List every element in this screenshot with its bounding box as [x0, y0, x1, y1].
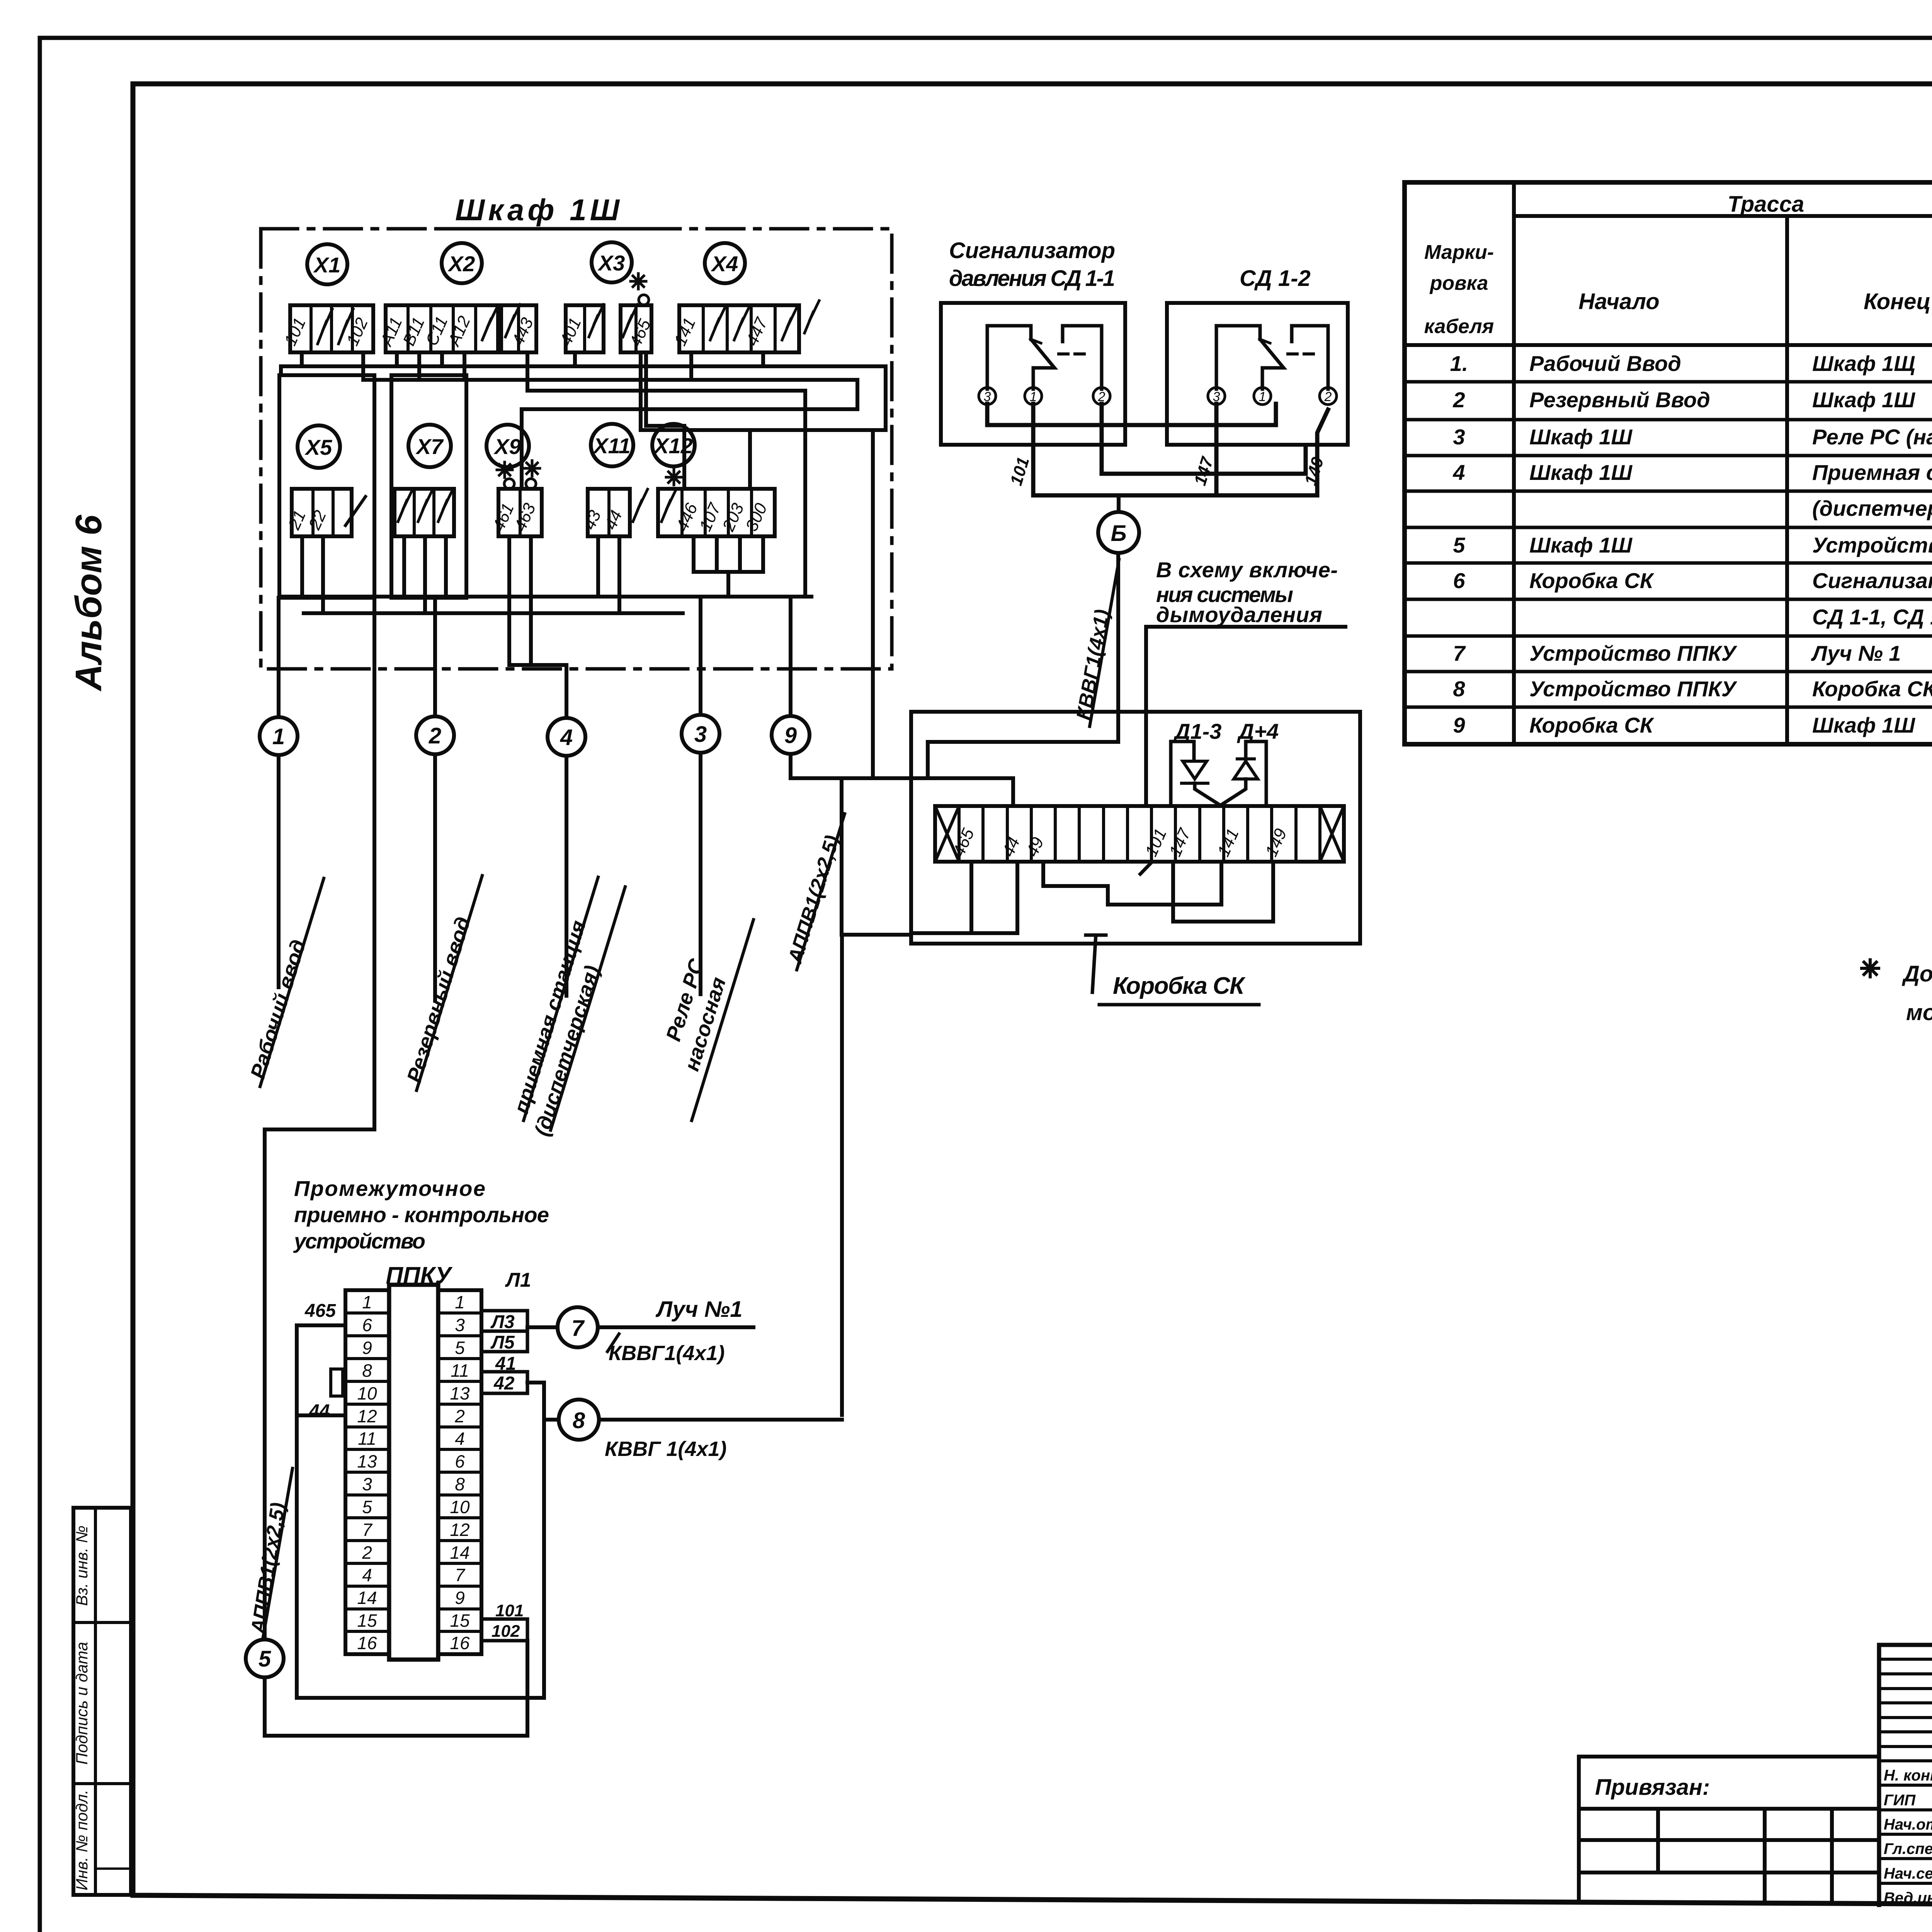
- svg-text:2: 2: [1324, 389, 1332, 404]
- cable circle 4: [548, 718, 585, 756]
- svg-text:10: 10: [357, 1383, 377, 1403]
- diode Д+4: [1246, 742, 1266, 806]
- wire 4 drop: [565, 756, 568, 996]
- svg-text:16: 16: [357, 1633, 377, 1653]
- svg-text:В схему включе-: В схему включе-: [1156, 558, 1338, 582]
- svg-text:Шкаф 1Ш: Шкаф 1Ш: [1529, 425, 1633, 449]
- svg-text:Подпись и дата: Подпись и дата: [73, 1642, 91, 1765]
- svg-text:14: 14: [450, 1543, 469, 1563]
- svg-text:Нач.секг.: Нач.секг.: [1884, 1865, 1932, 1882]
- connector X12: [652, 424, 695, 466]
- svg-text:14: 14: [357, 1588, 377, 1608]
- terminal strip X5: [292, 489, 352, 536]
- svg-text:6: 6: [455, 1451, 465, 1471]
- svg-text:15: 15: [357, 1611, 377, 1631]
- riser from cabinet bus to junction box: [871, 430, 875, 778]
- wire number 149: [1301, 455, 1327, 488]
- svg-text:5: 5: [455, 1338, 465, 1358]
- svg-text:Вед.инж.: Вед.инж.: [1884, 1889, 1932, 1906]
- linked-to block Привязан: [1579, 1757, 1879, 1902]
- svg-text:Промежуточное: Промежуточное: [294, 1176, 485, 1201]
- crossed end terminals: [935, 806, 1344, 862]
- cable drop wires to cable circles: [279, 597, 791, 718]
- cable journal table frame: [1405, 182, 1932, 744]
- svg-text:Л1: Л1: [505, 1269, 531, 1291]
- СД1-1 contact symbol: [987, 326, 1031, 389]
- СД1-1 terminals 3 1 2: [979, 388, 996, 405]
- svg-text:Резервный Ввод: Резервный Ввод: [1529, 388, 1710, 412]
- pressure switch СД1-1 box: [941, 303, 1125, 445]
- node 44 label: [309, 1401, 330, 1422]
- cable 9 marking stub: [842, 778, 911, 935]
- svg-text:2: 2: [454, 1406, 465, 1426]
- svg-text:9: 9: [1453, 713, 1465, 737]
- svg-text:7: 7: [571, 1316, 585, 1341]
- svg-text:X4: X4: [711, 252, 738, 276]
- svg-text:Устройство ППКУ: Устройство ППКУ: [1529, 641, 1738, 665]
- svg-text:Луч №1: Луч №1: [655, 1297, 742, 1322]
- label приемная станция (диспетчерская): [505, 918, 616, 1139]
- svg-text:Л5: Л5: [490, 1332, 515, 1353]
- title block outline: [1879, 1645, 1932, 1908]
- svg-text:4: 4: [1452, 460, 1465, 485]
- label Реле РС насосная: [655, 956, 734, 1074]
- terminal 42: [481, 1372, 527, 1393]
- svg-text:3: 3: [694, 722, 707, 747]
- svg-text:X9: X9: [493, 434, 521, 459]
- svg-text:Рабочий Ввод: Рабочий Ввод: [1529, 351, 1681, 376]
- terminal group 465 with lamp: [621, 305, 651, 352]
- svg-text:8: 8: [362, 1361, 372, 1381]
- connector X11: [591, 424, 633, 466]
- jumper on left pins: [331, 1369, 343, 1396]
- svg-text:ровка: ровка: [1429, 272, 1488, 294]
- strip wire numbers: [949, 825, 1291, 859]
- svg-text:5: 5: [259, 1646, 271, 1672]
- svg-text:13: 13: [450, 1383, 470, 1403]
- svg-text:1: 1: [455, 1292, 465, 1312]
- svg-text:6: 6: [362, 1315, 372, 1335]
- svg-text:устройство: устройство: [293, 1229, 425, 1253]
- svg-text:5: 5: [1453, 533, 1465, 557]
- left margin stamp table: [73, 1508, 131, 1895]
- svg-text:X7: X7: [415, 434, 444, 459]
- wire number 147: [1190, 454, 1217, 488]
- wire to smoke removal system: [1146, 627, 1345, 806]
- svg-text:Коробка СК: Коробка СК: [1529, 568, 1655, 593]
- svg-text:1: 1: [1259, 389, 1266, 404]
- svg-text:Сигнализатор: Сигнализатор: [949, 238, 1115, 263]
- label АППВ1(2х2,5) cable 9: [784, 833, 844, 966]
- svg-text:(диспетчерская): (диспетчерская): [1812, 496, 1932, 520]
- svg-text:Домаркировать. клеммник в ш: Домаркировать. клеммник в шкафу при: [1901, 961, 1932, 986]
- cable circle 1: [260, 717, 298, 755]
- СД1-2 contact symbol: [1216, 326, 1260, 389]
- svg-text:кабеля: кабеля: [1424, 315, 1494, 338]
- svg-text:3: 3: [455, 1315, 465, 1335]
- svg-text:Н. контр: Н. контр: [1884, 1767, 1932, 1784]
- connector X2: [442, 243, 482, 283]
- wire loop box around X7: [391, 375, 466, 598]
- PPKU left terminal column: [345, 1290, 389, 1654]
- label Сигнализатор давления СД1-1: [949, 238, 1311, 291]
- cable circle 8: [559, 1400, 599, 1440]
- svg-text:СД 1-2: СД 1-2: [1240, 266, 1311, 291]
- junction box label leader: [1086, 935, 1106, 992]
- PPKU right terminal column: [438, 1290, 481, 1654]
- terminal strip X4: [679, 305, 799, 352]
- svg-text:дымоудаления: дымоудаления: [1156, 602, 1322, 627]
- svg-text:4: 4: [455, 1429, 465, 1449]
- junction box terminal strip: [935, 806, 1344, 862]
- svg-text:Инв. № подл.: Инв. № подл.: [73, 1790, 91, 1891]
- svg-text:КВВГ1(4х1): КВВГ1(4х1): [609, 1342, 724, 1365]
- wire from 102 to cable 5: [265, 1641, 527, 1736]
- internal wires below strip: [1043, 862, 1221, 905]
- label Луч №1 КВВГ1(4х1): [609, 1297, 742, 1365]
- svg-text:X2: X2: [447, 252, 475, 276]
- svg-text:12: 12: [450, 1520, 469, 1540]
- svg-text:7: 7: [1453, 641, 1466, 665]
- wire 5 route to PPKU: [265, 598, 374, 1639]
- internal bottom bus to cable 8: [911, 862, 1017, 933]
- svg-text:102: 102: [492, 1622, 520, 1641]
- node 465 label: [304, 1301, 336, 1321]
- svg-text:Шкаф 1Ш: Шкаф 1Ш: [1529, 460, 1633, 485]
- table headers: [1424, 192, 1932, 338]
- svg-text:Альбом 6: Альбом 6: [68, 515, 109, 692]
- svg-text:приемно - контрольное: приемно - контрольное: [294, 1202, 549, 1227]
- label АППВ1(2х2,5) cable 5: [247, 1501, 289, 1636]
- cable circle 3: [682, 715, 719, 753]
- terminal strip X2: [386, 305, 498, 352]
- diode Д1-3: [1171, 742, 1194, 806]
- svg-text:Шкаф 1Ш: Шкаф 1Ш: [1812, 713, 1915, 737]
- svg-text:11: 11: [451, 1361, 469, 1381]
- terminal strip X3: [566, 305, 604, 352]
- terminal strip X7: [395, 489, 454, 536]
- wire number 101: [1007, 455, 1033, 488]
- svg-text:Коробка СК: Коробка СК: [1529, 713, 1655, 737]
- terminal 102: [481, 1619, 527, 1641]
- svg-text:1: 1: [272, 724, 285, 749]
- svg-text:Трасса: Трасса: [1728, 192, 1804, 217]
- svg-text:Нач.отд.: Нач.отд.: [1884, 1816, 1932, 1833]
- svg-text:2: 2: [362, 1543, 372, 1563]
- wire 1 drop: [277, 755, 281, 987]
- svg-text:9: 9: [455, 1588, 465, 1608]
- wire to cable 7: [527, 1325, 753, 1329]
- asterisk above 465: [631, 274, 646, 289]
- terminal strip X1: [290, 305, 373, 352]
- terminal strip X9 with lamps: [498, 489, 542, 536]
- svg-text:Л3: Л3: [490, 1312, 515, 1332]
- svg-text:3: 3: [362, 1474, 372, 1494]
- svg-text:6: 6: [1453, 568, 1465, 593]
- svg-text:5: 5: [362, 1497, 372, 1517]
- asterisk note: [1862, 960, 1879, 977]
- wire bus net between strips: [281, 352, 886, 597]
- junction box Коробка СК outline: [911, 712, 1360, 944]
- svg-text:Коробка СК: Коробка СК: [1113, 973, 1246, 999]
- wire 8 riser: [840, 935, 844, 1415]
- svg-text:Реле РС (насосная): Реле РС (насосная): [1812, 425, 1932, 449]
- svg-text:3: 3: [1453, 425, 1465, 449]
- terminal strip X12: [658, 489, 775, 536]
- cable circle 7: [558, 1307, 598, 1347]
- cabinet 1Ш dash-dot boundary: [261, 229, 892, 669]
- connector X4: [705, 243, 745, 283]
- svg-text:42: 42: [493, 1373, 515, 1394]
- svg-text:16: 16: [450, 1633, 470, 1653]
- label Резервный ввод: [403, 914, 475, 1085]
- terminal Л5: [481, 1331, 527, 1352]
- wire 9 route to junction box: [791, 754, 1013, 806]
- svg-text:8: 8: [573, 1408, 585, 1433]
- wire 3 drop: [699, 753, 702, 994]
- svg-text:Гл.спец: Гл.спец: [1884, 1840, 1932, 1857]
- svg-text:10: 10: [450, 1497, 470, 1517]
- svg-text:Шкаф 1Ш: Шкаф 1Ш: [1529, 533, 1633, 557]
- svg-text:465: 465: [304, 1301, 336, 1321]
- wire loop box around X5: [279, 375, 374, 598]
- svg-text:1.: 1.: [1450, 351, 1468, 376]
- label КВВГ1(4х1): [1072, 608, 1114, 722]
- connector X1: [307, 244, 347, 284]
- connector X5: [298, 425, 340, 468]
- svg-text:13: 13: [357, 1451, 377, 1471]
- connector X7: [408, 425, 451, 467]
- cable circle 5: [246, 1639, 284, 1677]
- svg-text:X12: X12: [653, 434, 693, 458]
- left link wires of PPKU: [297, 1325, 544, 1698]
- svg-text:2: 2: [1452, 388, 1465, 412]
- svg-text:Начало: Начало: [1578, 289, 1659, 314]
- svg-text:4: 4: [362, 1565, 372, 1585]
- connector X9: [486, 425, 529, 467]
- svg-text:8: 8: [1453, 677, 1465, 701]
- svg-text:1: 1: [362, 1292, 372, 1312]
- lower bus wires inside cabinet: [279, 536, 811, 665]
- wire 2 drop: [433, 754, 437, 1001]
- title block small rows: [1879, 1659, 1932, 1761]
- svg-text:Б: Б: [1111, 521, 1126, 546]
- cable 6 drop into junction box: [928, 553, 1118, 778]
- diode labels Д1-3 Д+4: [1173, 719, 1279, 743]
- node 101 label: [495, 1601, 524, 1620]
- svg-text:X3: X3: [597, 251, 625, 275]
- svg-text:Шкаф 1Ш: Шкаф 1Ш: [455, 193, 620, 227]
- svg-text:Шкаф 1Ш: Шкаф 1Ш: [1812, 388, 1915, 412]
- cable circle 6: [1098, 512, 1139, 553]
- svg-text:Сигнализаторы: Сигнализаторы: [1812, 568, 1932, 593]
- note В схему включения системы дымоудаления: [1156, 558, 1338, 627]
- svg-text:Устройство ППКУ: Устройство ППКУ: [1812, 533, 1932, 557]
- svg-text:9: 9: [784, 723, 797, 748]
- label Рабочий ввод: [246, 937, 310, 1082]
- svg-text:СД 1-1, СД 1-2: СД 1-1, СД 1-2: [1812, 605, 1932, 629]
- wire to cable 8: [544, 1418, 842, 1422]
- svg-text:2: 2: [429, 723, 441, 748]
- pressure switch СД1-2 box: [1167, 303, 1348, 445]
- svg-text:11: 11: [358, 1429, 376, 1449]
- svg-text:ГИП: ГИП: [1884, 1792, 1916, 1809]
- label КВВГ 1(4х1): [605, 1437, 726, 1461]
- terminal strip X11: [588, 489, 630, 536]
- wiring below pressure switches: [987, 404, 1276, 425]
- table data rows: [1450, 351, 1932, 737]
- svg-text:Приемная станция: Приемная станция: [1812, 460, 1932, 485]
- svg-text:4: 4: [560, 725, 573, 750]
- svg-text:8: 8: [455, 1474, 465, 1494]
- svg-text:Привязан:: Привязан:: [1595, 1775, 1710, 1800]
- PPKU header text: [293, 1176, 549, 1289]
- svg-text:Шкаф 1Щ: Шкаф 1Щ: [1812, 351, 1915, 376]
- svg-text:монтаже.: монтаже.: [1906, 1000, 1932, 1025]
- svg-text:X1: X1: [313, 253, 341, 277]
- svg-text:Вз. инв. №: Вз. инв. №: [73, 1526, 91, 1606]
- terminal Л3: [481, 1311, 527, 1331]
- terminal group 443: [501, 305, 536, 352]
- svg-text:7: 7: [362, 1520, 372, 1540]
- svg-text:9: 9: [362, 1338, 372, 1358]
- cabinet 1Ш label: [455, 193, 620, 227]
- svg-text:15: 15: [450, 1611, 470, 1631]
- svg-text:Луч № 1: Луч № 1: [1811, 641, 1901, 665]
- svg-text:КВВГ 1(4х1): КВВГ 1(4х1): [605, 1437, 726, 1461]
- node 41 label: [495, 1354, 516, 1374]
- svg-text:Конец: Конец: [1864, 289, 1931, 314]
- cable 6 stem: [1117, 495, 1121, 512]
- connector X3: [592, 242, 632, 282]
- svg-text:X5: X5: [304, 435, 332, 459]
- svg-text:44: 44: [309, 1401, 330, 1422]
- PPKU body: [389, 1285, 438, 1660]
- node Л1 label: [505, 1269, 531, 1291]
- svg-text:Устройство ППКУ: Устройство ППКУ: [1529, 677, 1738, 701]
- svg-text:7: 7: [455, 1565, 465, 1585]
- svg-text:давления СД 1-1: давления СД 1-1: [949, 266, 1115, 291]
- cable circle 9: [772, 716, 810, 754]
- СД1-2 terminals 3 1 2: [1208, 388, 1225, 405]
- svg-text:Коробка СК: Коробка СК: [1812, 677, 1932, 701]
- svg-text:X11: X11: [592, 434, 630, 458]
- svg-text:12: 12: [357, 1406, 377, 1426]
- svg-text:Марки-: Марки-: [1424, 241, 1494, 264]
- title block signature rows text: [1884, 1767, 1932, 1906]
- cable circle 2: [416, 716, 454, 754]
